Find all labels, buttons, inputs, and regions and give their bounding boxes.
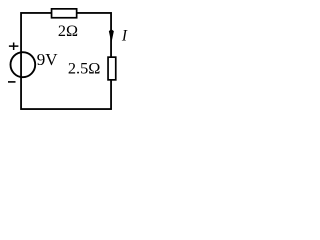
svg-text:I: I: [121, 27, 128, 44]
resistor R2 2.5ohm: [108, 57, 116, 80]
background: [0, 0, 133, 118]
svg-text:2.5Ω: 2.5Ω: [68, 59, 100, 78]
svg-text:2Ω: 2Ω: [58, 22, 78, 40]
svg-text:9V: 9V: [37, 50, 59, 69]
wire loop: [21, 13, 111, 109]
minus sign: [8, 81, 16, 83]
voltage source V1 circle: [11, 52, 36, 77]
current arrowhead: [109, 29, 114, 43]
plus sign: [9, 43, 19, 51]
resistor R1 2ohm: [52, 9, 77, 18]
